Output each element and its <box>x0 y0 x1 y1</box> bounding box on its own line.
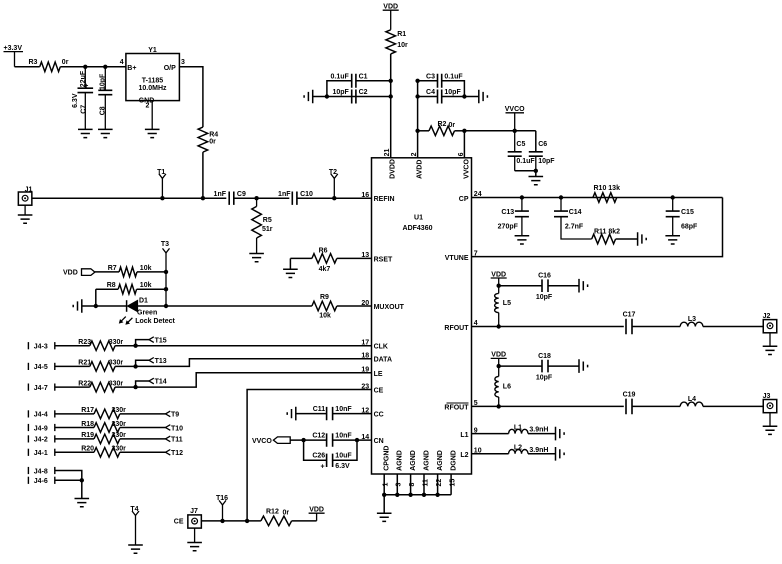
svg-text:C18: C18 <box>538 353 551 360</box>
svg-text:C26: C26 <box>312 453 325 460</box>
svg-text:J4-7: J4-7 <box>34 385 48 392</box>
svg-text:J4-4: J4-4 <box>34 412 48 419</box>
svg-text:L2: L2 <box>460 452 468 459</box>
inductor L2 3.9nH <box>472 453 509 455</box>
op-amp U1 ADF4360 <box>372 158 472 474</box>
test tag T11 <box>166 436 171 442</box>
svg-text:D1: D1 <box>139 298 148 305</box>
connector J4-7 <box>27 384 29 391</box>
resistor R22 330r <box>55 386 90 388</box>
svg-text:10k: 10k <box>319 312 331 319</box>
ground sideways <box>479 90 488 104</box>
ground <box>78 129 93 137</box>
ground sideways <box>304 90 313 104</box>
svg-text:VVCO: VVCO <box>252 438 272 445</box>
connector J4-9 <box>27 424 29 431</box>
capacitor C14 2.7nF <box>559 195 563 199</box>
ground <box>377 513 392 521</box>
svg-text:+3.3V: +3.3V <box>4 45 23 52</box>
svg-text:T9: T9 <box>171 412 179 419</box>
svg-text:T4: T4 <box>130 506 138 513</box>
ground sideways <box>638 232 647 246</box>
svg-text:51r: 51r <box>262 226 273 233</box>
svg-text:L1: L1 <box>514 424 522 431</box>
wire LE <box>136 373 372 387</box>
svg-text:R3: R3 <box>29 59 38 66</box>
node + test tag T15 <box>133 344 137 348</box>
wire VVCO pin <box>463 131 465 158</box>
wire <box>327 81 352 97</box>
svg-text:VTUNE: VTUNE <box>445 255 469 262</box>
svg-text:2.7nF: 2.7nF <box>565 223 584 230</box>
svg-text:Green: Green <box>137 310 157 317</box>
svg-text:0.1uF: 0.1uF <box>444 74 463 81</box>
capacitor C8 10pF <box>104 67 106 91</box>
node <box>513 129 517 133</box>
svg-text:10pF: 10pF <box>332 89 349 96</box>
connector J4-2 <box>27 435 29 442</box>
svg-text:R21: R21 <box>78 360 91 367</box>
svg-text:U1: U1 <box>414 215 423 222</box>
capacitor C2 10pF <box>327 96 391 98</box>
wire REFIN <box>32 197 226 199</box>
resistor R4 0r <box>198 127 208 152</box>
resistor R6 4k7 <box>290 257 312 259</box>
svg-text:RFOUT: RFOUT <box>444 405 469 412</box>
ground <box>283 269 298 277</box>
svg-text:6.3V: 6.3V <box>335 463 350 470</box>
svg-text:T2: T2 <box>329 169 337 176</box>
svg-text:6: 6 <box>458 152 465 156</box>
svg-text:10pF: 10pF <box>536 374 553 381</box>
svg-text:C19: C19 <box>623 391 636 398</box>
wire <box>464 130 535 132</box>
wire <box>515 171 536 177</box>
wire <box>202 152 204 198</box>
resistor R7 10k <box>95 271 119 273</box>
svg-text:B+: B+ <box>127 65 136 72</box>
capacitor C12 10nF <box>290 439 326 441</box>
capacitor C11 10nF <box>296 413 327 415</box>
resistor R21 330r <box>55 365 90 367</box>
svg-text:CLK: CLK <box>374 344 388 351</box>
svg-text:R20: R20 <box>81 446 94 453</box>
svg-text:J4-8: J4-8 <box>34 468 48 475</box>
svg-text:10pF: 10pF <box>536 294 553 301</box>
capacitor C17 <box>626 319 632 335</box>
svg-text:C3: C3 <box>426 74 435 81</box>
ground <box>194 528 196 542</box>
svg-text:DATA: DATA <box>374 357 392 364</box>
wire RFOUTB <box>472 405 624 407</box>
svg-text:VVCO: VVCO <box>463 159 470 179</box>
wire CLK <box>136 345 372 347</box>
resistor R1 10r <box>386 30 396 54</box>
wire CE <box>247 390 371 521</box>
svg-text:3.9nH: 3.9nH <box>529 427 548 434</box>
wire DATA <box>136 359 372 367</box>
svg-text:AVDD: AVDD <box>417 160 424 179</box>
svg-text:C13: C13 <box>501 209 514 216</box>
svg-text:J4-2: J4-2 <box>34 437 48 444</box>
svg-text:AGND: AGND <box>397 450 404 471</box>
svg-text:T1: T1 <box>157 169 165 176</box>
node + test tag T14 <box>133 385 137 389</box>
ground sideways <box>556 447 565 461</box>
svg-text:J4-5: J4-5 <box>34 364 48 371</box>
svg-text:CP: CP <box>459 196 469 203</box>
connector J4-6 <box>27 477 29 484</box>
ground of Y1 <box>151 101 153 130</box>
capacitor C5 0.1uF <box>514 131 516 152</box>
svg-text:C1: C1 <box>359 74 368 81</box>
svg-text:10nF: 10nF <box>335 432 352 439</box>
svg-text:10r: 10r <box>397 42 408 49</box>
svg-text:L5: L5 <box>503 300 511 307</box>
svg-text:VDD: VDD <box>491 271 506 278</box>
inductor L6 <box>497 364 501 368</box>
svg-text:10pF: 10pF <box>538 158 555 165</box>
wire MUXOUT <box>137 305 312 307</box>
wire <box>289 258 291 269</box>
svg-text:R17: R17 <box>81 407 94 414</box>
resistor R12 0r <box>261 516 292 526</box>
node <box>83 65 87 69</box>
svg-text:1nF: 1nF <box>278 191 291 198</box>
capacitor C1 0.1uF <box>356 80 391 82</box>
resistor R19 330r <box>55 438 94 440</box>
svg-text:10k: 10k <box>140 265 152 272</box>
svg-text:0r: 0r <box>209 139 216 146</box>
node <box>245 519 249 523</box>
svg-text:2: 2 <box>411 152 418 156</box>
svg-text:3: 3 <box>181 59 185 66</box>
wire <box>201 520 261 522</box>
inductor L3 <box>680 322 703 326</box>
svg-text:T10: T10 <box>171 425 183 432</box>
svg-text:LE: LE <box>374 371 383 378</box>
svg-text:C2: C2 <box>359 89 368 96</box>
svg-text:CPGND: CPGND <box>384 446 391 471</box>
svg-text:6.3V: 6.3V <box>72 93 79 108</box>
node + test tag T13 <box>133 364 137 368</box>
svg-text:CN: CN <box>374 438 384 445</box>
inductor L4 <box>680 402 703 406</box>
ground sideways <box>579 279 588 293</box>
svg-text:R11 8k2: R11 8k2 <box>594 228 620 235</box>
svg-text:+: + <box>84 83 88 90</box>
ground <box>665 236 680 244</box>
capacitor C19 <box>626 399 632 415</box>
svg-text:L2: L2 <box>514 445 522 452</box>
svg-text:T13: T13 <box>155 358 167 365</box>
wire CP <box>472 197 723 199</box>
svg-text:Lock Detect: Lock Detect <box>135 318 175 325</box>
svg-text:C12: C12 <box>312 432 325 439</box>
wire AVDD <box>417 81 419 158</box>
resistor R9 10k <box>312 301 337 311</box>
svg-text:+: + <box>321 464 325 471</box>
ground <box>529 177 544 185</box>
svg-text:REFIN: REFIN <box>374 196 395 203</box>
inductor L5 <box>497 284 501 288</box>
ground <box>128 545 143 553</box>
wire DVDD <box>390 54 392 158</box>
resistor R5 51r <box>256 198 258 206</box>
svg-text:T11: T11 <box>171 437 183 444</box>
node <box>325 94 329 98</box>
svg-text:CE: CE <box>374 388 384 395</box>
svg-text:10k: 10k <box>140 282 152 289</box>
svg-text:R4: R4 <box>209 132 218 139</box>
connector J4-5 <box>27 363 29 370</box>
svg-text:68pF: 68pF <box>681 223 698 230</box>
svg-text:C7: C7 <box>81 105 88 114</box>
capacitor C15 68pF <box>671 195 675 199</box>
svg-text:T14: T14 <box>155 379 167 386</box>
svg-text:C10: C10 <box>300 191 313 198</box>
capacitor C13 270pF <box>520 195 524 199</box>
svg-text:1nF: 1nF <box>214 191 227 198</box>
svg-text:R22: R22 <box>78 380 91 387</box>
capacitor C26 10uF 6.3V <box>304 440 327 460</box>
svg-text:CE: CE <box>174 519 184 526</box>
wire <box>95 289 97 306</box>
svg-text:VDD: VDD <box>309 507 324 514</box>
svg-text:RSET: RSET <box>374 256 393 263</box>
resistor R20 330r <box>55 451 94 453</box>
svg-text:R9: R9 <box>320 294 329 301</box>
svg-text:VDD: VDD <box>491 352 506 359</box>
resistor R10 13k <box>593 193 617 203</box>
svg-text:J4-6: J4-6 <box>34 478 48 485</box>
connector J4-3 <box>27 342 29 349</box>
connector J4-1 <box>27 449 29 456</box>
wire <box>81 480 83 498</box>
svg-text:10pF: 10pF <box>444 89 461 96</box>
svg-text:AGND: AGND <box>423 450 430 471</box>
node <box>103 65 107 69</box>
resistor R11 8k2 <box>592 234 616 244</box>
connector J4-8 <box>27 467 29 474</box>
svg-text:R23: R23 <box>78 339 91 346</box>
svg-text:VVCO: VVCO <box>505 106 525 113</box>
test tag T12 <box>166 450 171 456</box>
wire VTUNE loop <box>472 198 723 257</box>
node <box>254 196 258 200</box>
svg-text:DVDD: DVDD <box>390 159 397 179</box>
wire ground bus <box>383 474 385 495</box>
svg-text:CC: CC <box>374 412 384 419</box>
svg-text:C4: C4 <box>426 89 435 96</box>
node <box>415 79 419 83</box>
ground <box>249 254 264 262</box>
node <box>415 129 419 133</box>
wire <box>60 66 126 68</box>
ground <box>515 236 530 244</box>
resistor R2 0r <box>418 130 429 132</box>
svg-text:DGND: DGND <box>451 450 458 471</box>
svg-text:L1: L1 <box>460 432 468 439</box>
svg-text:C11: C11 <box>313 406 326 413</box>
svg-text:10nF: 10nF <box>335 406 352 413</box>
ground <box>98 129 113 137</box>
svg-text:L6: L6 <box>503 384 511 391</box>
svg-text:0r: 0r <box>283 509 290 516</box>
svg-text:C17: C17 <box>623 311 636 318</box>
inductor L1 3.9nH <box>472 433 509 435</box>
svg-text:0.1uF: 0.1uF <box>331 74 350 81</box>
svg-text:J4-9: J4-9 <box>34 425 48 432</box>
svg-text:AGND: AGND <box>410 450 417 471</box>
capacitor C4 10pF <box>418 96 438 98</box>
wire RFOUT <box>472 326 624 328</box>
ground sideways <box>579 359 588 373</box>
svg-text:R12: R12 <box>266 509 279 516</box>
svg-text:C6: C6 <box>538 141 547 148</box>
svg-text:L3: L3 <box>688 316 696 323</box>
node <box>389 79 393 83</box>
capacitor C16 10pF <box>499 285 542 287</box>
svg-text:C16: C16 <box>538 273 551 280</box>
svg-text:R5: R5 <box>263 217 272 224</box>
ground sideways <box>73 299 82 313</box>
resistor R17 330r <box>55 413 94 415</box>
svg-text:VDD: VDD <box>63 270 78 277</box>
svg-text:R7: R7 <box>108 265 117 272</box>
svg-text:R2: R2 <box>438 121 447 128</box>
capacitor C3 0.1uF <box>418 80 438 82</box>
svg-text:T16: T16 <box>216 495 228 502</box>
ground sideways <box>287 407 296 421</box>
connector J4-4 <box>27 410 29 417</box>
ground <box>75 499 90 507</box>
ground sideways <box>556 427 565 441</box>
svg-text:L4: L4 <box>688 396 696 403</box>
svg-text:R10 13k: R10 13k <box>594 185 621 192</box>
test tag T9 <box>166 411 171 417</box>
svg-text:270pF: 270pF <box>498 223 519 230</box>
wire <box>383 495 385 513</box>
svg-text:C14: C14 <box>569 209 582 216</box>
svg-text:C15: C15 <box>681 209 694 216</box>
wire <box>15 66 40 68</box>
svg-text:4k7: 4k7 <box>319 266 331 273</box>
svg-text:0.1uF: 0.1uF <box>516 158 535 165</box>
svg-text:C5: C5 <box>516 141 525 148</box>
resistor R8 10k <box>96 288 118 290</box>
svg-text:10pF: 10pF <box>99 73 106 90</box>
svg-text:J7: J7 <box>190 508 198 515</box>
svg-text:T-1185: T-1185 <box>142 77 164 84</box>
resistor R23 330r <box>55 345 90 347</box>
svg-text:C9: C9 <box>237 191 246 198</box>
node R4 <box>201 196 205 200</box>
resistor R18 330r <box>55 427 94 429</box>
svg-text:10uF: 10uF <box>335 453 352 460</box>
ground <box>24 205 26 215</box>
svg-text:C8: C8 <box>99 106 106 115</box>
svg-text:R19: R19 <box>81 432 94 439</box>
ground <box>769 333 771 347</box>
svg-text:RFOUT: RFOUT <box>444 325 469 332</box>
ground <box>769 413 771 427</box>
node <box>462 129 466 133</box>
svg-text:MUXOUT: MUXOUT <box>374 304 405 311</box>
svg-text:R18: R18 <box>81 421 94 428</box>
svg-text:4: 4 <box>120 59 124 66</box>
svg-text:0r: 0r <box>62 59 69 66</box>
svg-text:Y1: Y1 <box>148 47 157 54</box>
svg-text:O/P: O/P <box>164 65 176 72</box>
svg-text:0r: 0r <box>449 122 456 129</box>
svg-text:R1: R1 <box>397 31 406 38</box>
svg-text:R6: R6 <box>319 247 328 254</box>
svg-text:T15: T15 <box>155 337 167 344</box>
svg-text:3.9nH: 3.9nH <box>529 447 548 454</box>
capacitor C18 10pF <box>499 365 542 367</box>
capacitor C6 10pF <box>535 131 537 152</box>
svg-text:T12: T12 <box>171 450 183 457</box>
svg-text:21: 21 <box>384 149 391 157</box>
svg-text:2: 2 <box>146 103 150 110</box>
svg-text:ADF4360: ADF4360 <box>403 225 433 232</box>
test tag T10 <box>166 425 171 431</box>
LED D1 Green Lock Detect <box>126 300 128 312</box>
resistor R3 0r <box>40 62 61 72</box>
svg-text:T3: T3 <box>161 241 169 248</box>
capacitor C7 22uF 6.3V <box>84 67 86 88</box>
svg-text:J4-3: J4-3 <box>34 344 48 351</box>
svg-text:AGND: AGND <box>437 450 444 471</box>
svg-text:10.0MHz: 10.0MHz <box>138 85 167 92</box>
svg-text:J4-1: J4-1 <box>34 450 48 457</box>
LED arrows <box>121 317 126 322</box>
svg-text:R8: R8 <box>107 282 116 289</box>
